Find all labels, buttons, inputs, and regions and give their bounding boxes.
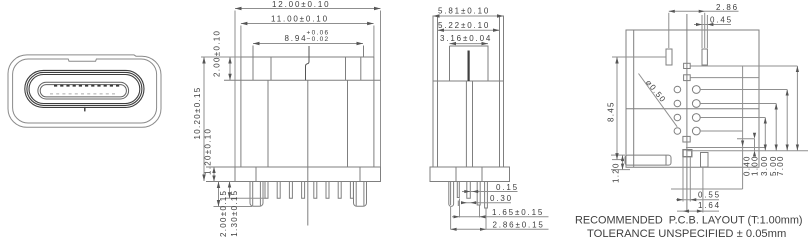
svg-text:0.15: 0.15: [496, 183, 519, 192]
svg-text:1.30±0.15: 1.30±0.15: [230, 190, 239, 237]
top band vertical inner left: [270, 57, 272, 80]
svg-text:1.65±0.15: 1.65±0.15: [492, 208, 544, 217]
svg-text:2.00±0.10: 2.00±0.10: [213, 30, 222, 77]
short row line 1.00 ref: [737, 138, 755, 140]
dim line 5.81 top: [433, 15, 504, 17]
arrowheads 0.30: [461, 201, 476, 204]
extension 0.55 left: [682, 157, 684, 202]
extension line left 12.00 / flange left: [234, 11, 236, 168]
flange notch left: [255, 167, 257, 182]
dim line 12.00: [235, 8, 381, 10]
svg-text:⌀0.50: ⌀0.50: [644, 78, 668, 105]
arrowheads 1.00: [764, 118, 767, 151]
pin 8: [350, 182, 353, 199]
square pad row1: [684, 63, 691, 68]
square pad big: [683, 150, 692, 157]
arrowheads 5.22: [438, 29, 500, 32]
block bottom / shelf line: [433, 80, 504, 82]
svg-text:8.94: 8.94: [285, 34, 308, 43]
diagonal leader 0.50: [639, 74, 678, 127]
svg-text:10.20±0.15: 10.20±0.15: [193, 87, 202, 140]
svg-text:0.45: 0.45: [710, 15, 733, 24]
outer shell outline: [8, 55, 161, 127]
connector sq2 row: [690, 77, 759, 79]
dim 1.65 line: [452, 216, 549, 218]
flange notch right: [359, 167, 361, 182]
arrowheads 1.20: [212, 167, 215, 182]
svg-text:−0.02: −0.02: [307, 36, 330, 43]
dim vertical 1.00: [764, 118, 766, 151]
extension pin bottom: [225, 197, 266, 199]
svg-text:12.00±0.10: 12.00±0.10: [272, 0, 330, 9]
pin 6: [326, 182, 329, 199]
center slot walls below: [466, 81, 472, 167]
body left edge: [240, 57, 242, 167]
dim vertical 3.00: [775, 104, 777, 151]
extension P1 down: [450, 207, 452, 230]
arrowheads 10.20: [202, 57, 205, 181]
right mounting leg: [354, 182, 367, 207]
connector circle row2: [700, 103, 776, 105]
arrowhead sq1 drop: [741, 141, 744, 147]
arrowheads 1.30: [228, 182, 231, 199]
center axis: [307, 80, 309, 225]
svg-text:1.20±0.10: 1.20±0.10: [204, 128, 213, 175]
bottom pad inner line: [665, 155, 667, 165]
leader at y189: [671, 188, 743, 190]
dim 1.64 line: [677, 210, 719, 212]
dim line 1.20: [213, 167, 215, 182]
dim 0.55 leader: [676, 199, 719, 201]
dim line 5.22: [438, 29, 500, 31]
tongue middle faint dashes: [50, 93, 118, 95]
arrowheads 2.86: [451, 228, 486, 231]
body inner vertical right: [347, 80, 349, 167]
svg-text:1.20: 1.20: [612, 162, 621, 183]
body inner vertical left: [267, 80, 269, 167]
connector circle row1: [700, 89, 787, 91]
svg-text:7.00: 7.00: [776, 155, 785, 176]
via circles right column: [692, 86, 700, 94]
flange bottom extension left: [206, 181, 235, 183]
connector circle row3: [700, 117, 765, 119]
extension line left 11.00: [240, 26, 242, 58]
dim vertical 7.00: [796, 66, 798, 151]
body top edge: [241, 56, 374, 58]
svg-text:1.00: 1.00: [751, 155, 760, 176]
svg-text:3.00: 3.00: [760, 155, 769, 176]
dim line 2.00 bottom: [218, 182, 220, 207]
dim 0.30 leader: [461, 202, 511, 204]
extension P2 down: [459, 199, 461, 218]
cavity stadium inner: [29, 75, 140, 104]
extension line right 11.00: [373, 26, 375, 58]
side flange: [430, 167, 510, 182]
left mounting leg: [250, 182, 263, 207]
dim line 1.30: [229, 182, 231, 199]
baseline row a: [686, 147, 765, 149]
arrowheads 11.00: [241, 22, 374, 25]
bottom center tick: [84, 107, 86, 112]
bottom horizontal slot pad: [625, 155, 671, 165]
dim vertical 0.40: [754, 139, 756, 151]
svg-text:0.30: 0.30: [490, 194, 513, 203]
right leg inner lines: [356, 182, 364, 206]
svg-text:2.86: 2.86: [716, 3, 739, 12]
leg pin P1: [449, 182, 454, 207]
arrowheads 5.00: [786, 90, 789, 151]
extension 8.45 bottom: [612, 159, 624, 161]
pin 5: [314, 182, 317, 199]
svg-text:5.22±0.10: 5.22±0.10: [438, 21, 490, 30]
board outline: [626, 30, 759, 167]
extension 8.45 top: [612, 56, 666, 58]
arrowheads 2.00 bottom: [217, 182, 220, 207]
cavity stadium outer: [25, 70, 144, 107]
pin P4: [477, 182, 480, 206]
arrowheads 0.55: [677, 198, 696, 201]
pin P2 hidden tail: [457, 201, 459, 207]
dim 2.86 line: [451, 228, 549, 230]
cavity stadium mid: [27, 72, 142, 105]
arrowheads 1.64: [683, 210, 703, 213]
side body outline: [433, 16, 504, 167]
body right edge: [373, 57, 375, 167]
extension 2.86 left: [668, 13, 670, 48]
bottom right vertical pad: [701, 153, 709, 168]
pin P2: [457, 182, 459, 198]
dim line 2.86 top: [669, 10, 739, 12]
arrowheads 8.94: [253, 42, 363, 45]
pin P3: [467, 182, 471, 199]
pin 3: [289, 182, 292, 199]
top band vertical 8.94 left: [252, 46, 254, 81]
dim 1.20 vertical: [622, 155, 624, 170]
square pad row3: [683, 136, 690, 142]
tongue inner line: [40, 85, 126, 97]
side inner wall left: [437, 16, 439, 167]
arrowheads 3.00: [775, 104, 778, 151]
square pad row2: [684, 75, 691, 81]
arrowheads 0.45: [696, 23, 713, 26]
extension P5 down: [485, 209, 487, 230]
top band bottom edge: [224, 79, 381, 81]
extension 0.55 right: [689, 157, 691, 202]
arrowheads 1.20: [621, 155, 624, 170]
pin 1: [265, 182, 268, 199]
extension line right 12.00 / flange right: [380, 11, 382, 168]
inner shell outline with top notch: [13, 59, 157, 123]
tongue contact dashes: [54, 85, 120, 87]
dim line 10.20: [203, 57, 205, 181]
svg-text:1.64: 1.64: [698, 201, 721, 210]
arrowheads 5.81: [433, 14, 504, 17]
baseline row b: [686, 150, 808, 152]
dim line 3.16: [450, 43, 489, 45]
board horizontal reference line: [626, 108, 759, 110]
vertical from sq1 row: [742, 66, 744, 189]
flange inner vertical 2: [481, 167, 483, 182]
dim line 0.45: [694, 24, 731, 26]
extension 0.45 left: [701, 15, 703, 48]
extension 2.86 right (slot center): [704, 13, 706, 48]
extension top edge left: [201, 56, 241, 58]
svg-text:2.86±0.15: 2.86±0.15: [493, 220, 545, 229]
pin 4: [302, 182, 305, 199]
arrowheads 2.00 top: [228, 57, 231, 80]
pin P5: [485, 182, 488, 209]
dim line 2.00 top: [229, 57, 231, 80]
svg-text:5.81±0.10: 5.81±0.10: [438, 6, 490, 15]
via circles left column: [674, 86, 681, 93]
svg-text:RECOMMENDED P.C.B. LAYOUT (T:: RECOMMENDED P.C.B. LAYOUT (T:1.00mm): [575, 214, 803, 226]
top band vertical 8.94 right: [363, 46, 365, 58]
pin 7: [338, 182, 341, 199]
dim 8.45 vertical: [616, 57, 618, 160]
top band vertical right: [360, 57, 362, 80]
side inner wall right: [499, 16, 501, 167]
board inner vertical line: [633, 30, 635, 167]
pin 2: [277, 182, 280, 199]
extension 1.20 top: [611, 154, 625, 156]
slot pad left: [666, 49, 672, 65]
center axis of layout: [686, 14, 688, 211]
svg-text:2.00±0.15: 2.00±0.15: [219, 190, 228, 237]
svg-text:11.00±0.10: 11.00±0.10: [271, 14, 329, 23]
slot pad right: [702, 49, 707, 65]
dim line 11.00: [241, 23, 374, 25]
tongue slot dark: [468, 51, 470, 82]
top band vertical inner right: [345, 57, 347, 80]
flange top extension left: [206, 166, 235, 168]
flange outline: [235, 167, 381, 182]
extension 1.64 right (pad center): [702, 167, 704, 212]
dim line 8.94: [253, 43, 363, 45]
arrowheads 0.15: [464, 190, 478, 193]
svg-text:TOLERANCE UNSPECIFIED ± 0.05mm: TOLERANCE UNSPECIFIED ± 0.05mm: [587, 228, 786, 239]
center break zigzag: [306, 46, 310, 80]
svg-text:8.45: 8.45: [607, 101, 616, 122]
dim 0.15 leader: [462, 191, 518, 193]
flange inner vertical 1: [455, 167, 457, 182]
connector circle row4: [700, 130, 742, 132]
extension 1.20 bottom: [611, 169, 630, 171]
svg-text:3.16±0.04: 3.16±0.04: [440, 34, 492, 43]
arrowheads 0.40: [753, 133, 756, 157]
connector sq1 row: [690, 65, 797, 67]
dim vertical 5.00: [786, 90, 788, 151]
left leg inner lines: [253, 182, 261, 206]
arrowheads 12.00: [235, 7, 381, 10]
extension P4 down: [479, 206, 481, 218]
arrowheads 1.65: [454, 215, 486, 218]
arrowheads 3.16: [450, 42, 489, 45]
tongue block: [450, 46, 489, 81]
extension leg bottom: [214, 206, 253, 208]
svg-text:0.55: 0.55: [698, 190, 721, 199]
extension 0.45 right: [706, 15, 708, 48]
arrowheads 2.86 top: [669, 10, 705, 13]
arrowheads 7.00: [796, 66, 799, 151]
tongue outline: [38, 82, 129, 99]
arrowheads 8.45: [615, 57, 618, 160]
